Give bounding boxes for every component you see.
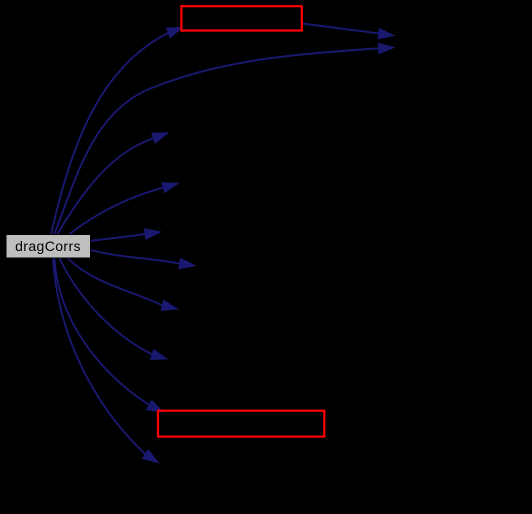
edge dragCorrs->node r5 bbox=[91, 229, 161, 241]
edge dragCorrs->node r10 bbox=[53, 259, 158, 463]
edge dragCorrs->node r3 bbox=[57, 133, 168, 235]
edge dragCorrs->top-right node (long sweep) bbox=[54, 43, 394, 234]
edge dragCorrs->node r6 bbox=[91, 250, 196, 269]
edge dragCorrs->node r4 bbox=[69, 183, 178, 235]
edge dragCorrs->node r7 bbox=[68, 259, 178, 311]
edge dragCorrs->bottom red node bbox=[55, 259, 164, 413]
svg-text:dragCorrs: dragCorrs bbox=[15, 238, 81, 254]
bottom red highlighted node bbox=[158, 411, 324, 437]
edge dragCorrs->top red node bbox=[51, 27, 183, 234]
edge dragCorrs->node r8 bbox=[60, 259, 168, 360]
edge top red node->top-right node bbox=[302, 24, 394, 39]
node dragCorrs bbox=[6, 235, 91, 259]
top red highlighted node bbox=[181, 6, 301, 30]
